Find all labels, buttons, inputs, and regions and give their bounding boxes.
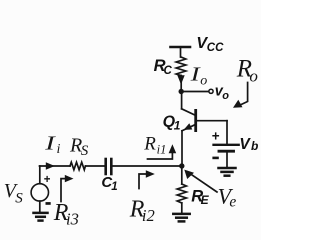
- svg-text:I: I: [44, 132, 57, 154]
- svg-text:C: C: [164, 65, 173, 77]
- svg-text:i2: i2: [142, 206, 155, 225]
- svg-text:b: b: [251, 139, 258, 153]
- svg-text:1: 1: [111, 181, 117, 193]
- svg-text:CC: CC: [207, 42, 224, 54]
- svg-text:1: 1: [174, 119, 181, 133]
- svg-text:i3: i3: [66, 209, 79, 228]
- svg-text:S: S: [81, 143, 89, 159]
- svg-text:E: E: [201, 193, 210, 207]
- svg-text:+: +: [44, 174, 51, 186]
- svg-text:V: V: [239, 136, 251, 153]
- svg-text:e: e: [229, 194, 236, 211]
- svg-text:R: R: [143, 134, 156, 155]
- svg-text:i: i: [57, 142, 61, 157]
- svg-text:i1: i1: [157, 142, 167, 156]
- svg-text:+: +: [212, 128, 220, 143]
- svg-text:S: S: [15, 191, 23, 207]
- svg-text:o: o: [200, 74, 207, 89]
- svg-text:o: o: [249, 67, 258, 86]
- svg-text:o: o: [222, 90, 229, 102]
